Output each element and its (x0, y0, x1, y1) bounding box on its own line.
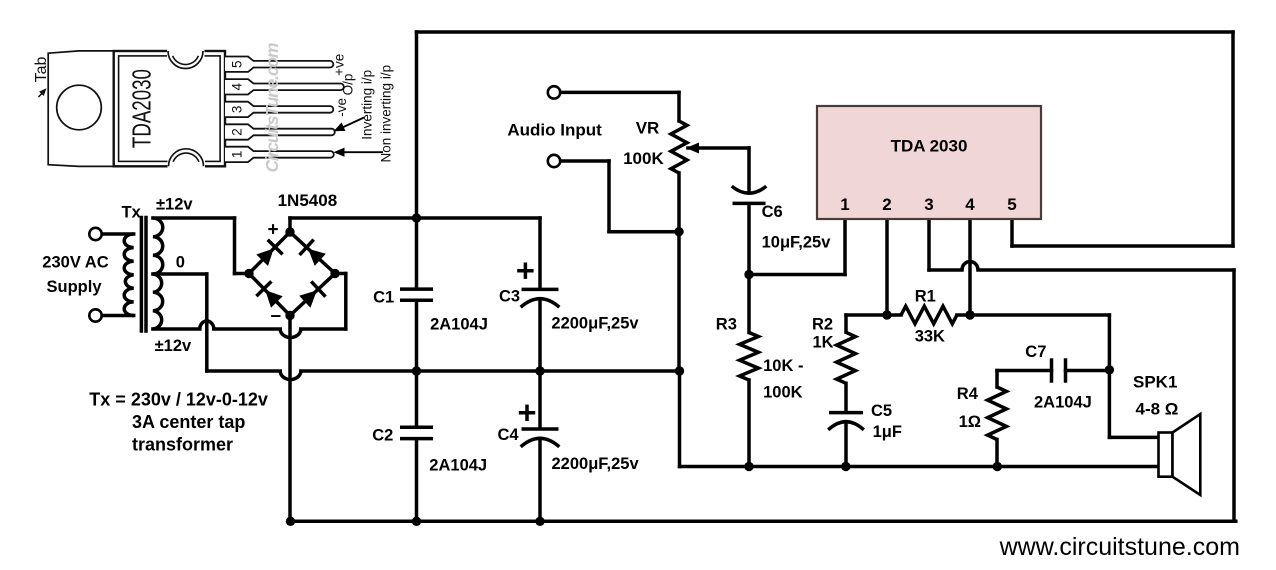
svg-text:R3: R3 (716, 315, 737, 333)
svg-text:R1: R1 (915, 287, 936, 305)
svg-text:2A104J: 2A104J (1034, 394, 1092, 412)
svg-text:1μF: 1μF (873, 423, 902, 441)
svg-text:C6: C6 (762, 203, 783, 221)
svg-text:5: 5 (229, 60, 244, 68)
svg-text:C3: C3 (499, 288, 520, 306)
svg-text:C7: C7 (1025, 343, 1046, 361)
svg-text:2A104J: 2A104J (429, 456, 487, 474)
svg-text:C2: C2 (372, 426, 393, 444)
svg-text:O/p: O/p (340, 74, 355, 96)
svg-text:3: 3 (924, 195, 933, 214)
svg-text:3A center tap: 3A center tap (132, 412, 245, 432)
svg-text:Supply: Supply (47, 278, 103, 296)
svg-text:Audio Input: Audio Input (507, 121, 602, 140)
svg-text:230V AC: 230V AC (42, 254, 108, 272)
svg-text:0: 0 (176, 253, 185, 271)
svg-text:3: 3 (229, 106, 244, 114)
svg-text:4-8 Ω: 4-8 Ω (1136, 400, 1179, 419)
svg-text:100K: 100K (763, 383, 803, 401)
svg-text:Inverting i/p: Inverting i/p (360, 70, 375, 140)
svg-text:±12v: ±12v (155, 337, 192, 355)
svg-text:10μF,25v: 10μF,25v (762, 234, 832, 252)
svg-text:4: 4 (965, 195, 975, 214)
svg-text:TDA2030: TDA2030 (129, 69, 157, 148)
svg-text:SPK1: SPK1 (1133, 373, 1177, 392)
svg-text:2A104J: 2A104J (430, 316, 488, 334)
svg-text:10K -: 10K - (763, 357, 803, 375)
svg-text:1Ω: 1Ω (959, 413, 981, 431)
svg-text:www.circuitstune.com: www.circuitstune.com (999, 533, 1240, 561)
svg-text:Tab: Tab (33, 57, 50, 83)
svg-text:1N5408: 1N5408 (278, 191, 338, 210)
svg-text:4: 4 (229, 83, 244, 91)
svg-text:C1: C1 (373, 288, 394, 306)
svg-text:TDA 2030: TDA 2030 (891, 137, 968, 156)
svg-text:transformer: transformer (132, 435, 233, 455)
svg-text:C4: C4 (498, 426, 520, 444)
svg-text:-ve: -ve (334, 98, 349, 117)
svg-text:1: 1 (840, 195, 849, 214)
svg-text:100K: 100K (623, 149, 664, 168)
svg-text:±12v: ±12v (156, 196, 193, 214)
svg-text:–: – (271, 306, 282, 327)
svg-text:Non inverting i/p: Non inverting i/p (379, 65, 394, 163)
svg-text:2: 2 (882, 195, 891, 214)
svg-text:R2: R2 (812, 315, 833, 333)
svg-text:2: 2 (229, 128, 244, 136)
svg-text:+: + (268, 220, 279, 241)
svg-text:Tx = 230v / 12v-0-12v: Tx = 230v / 12v-0-12v (89, 389, 268, 409)
svg-text:2200μF,25v: 2200μF,25v (552, 455, 640, 473)
svg-text:R4: R4 (957, 385, 979, 403)
svg-text:5: 5 (1007, 195, 1016, 214)
svg-text:Tx: Tx (122, 204, 142, 222)
svg-text:VR: VR (636, 119, 660, 138)
svg-text:1: 1 (229, 151, 244, 159)
svg-text:C5: C5 (871, 402, 892, 420)
svg-text:33K: 33K (915, 327, 945, 345)
svg-text:CircuitsTune.com: CircuitsTune.com (262, 43, 282, 173)
svg-text:1K: 1K (813, 333, 834, 351)
svg-text:2200μF,25v: 2200μF,25v (551, 314, 639, 332)
svg-text:+ve: +ve (332, 54, 347, 76)
